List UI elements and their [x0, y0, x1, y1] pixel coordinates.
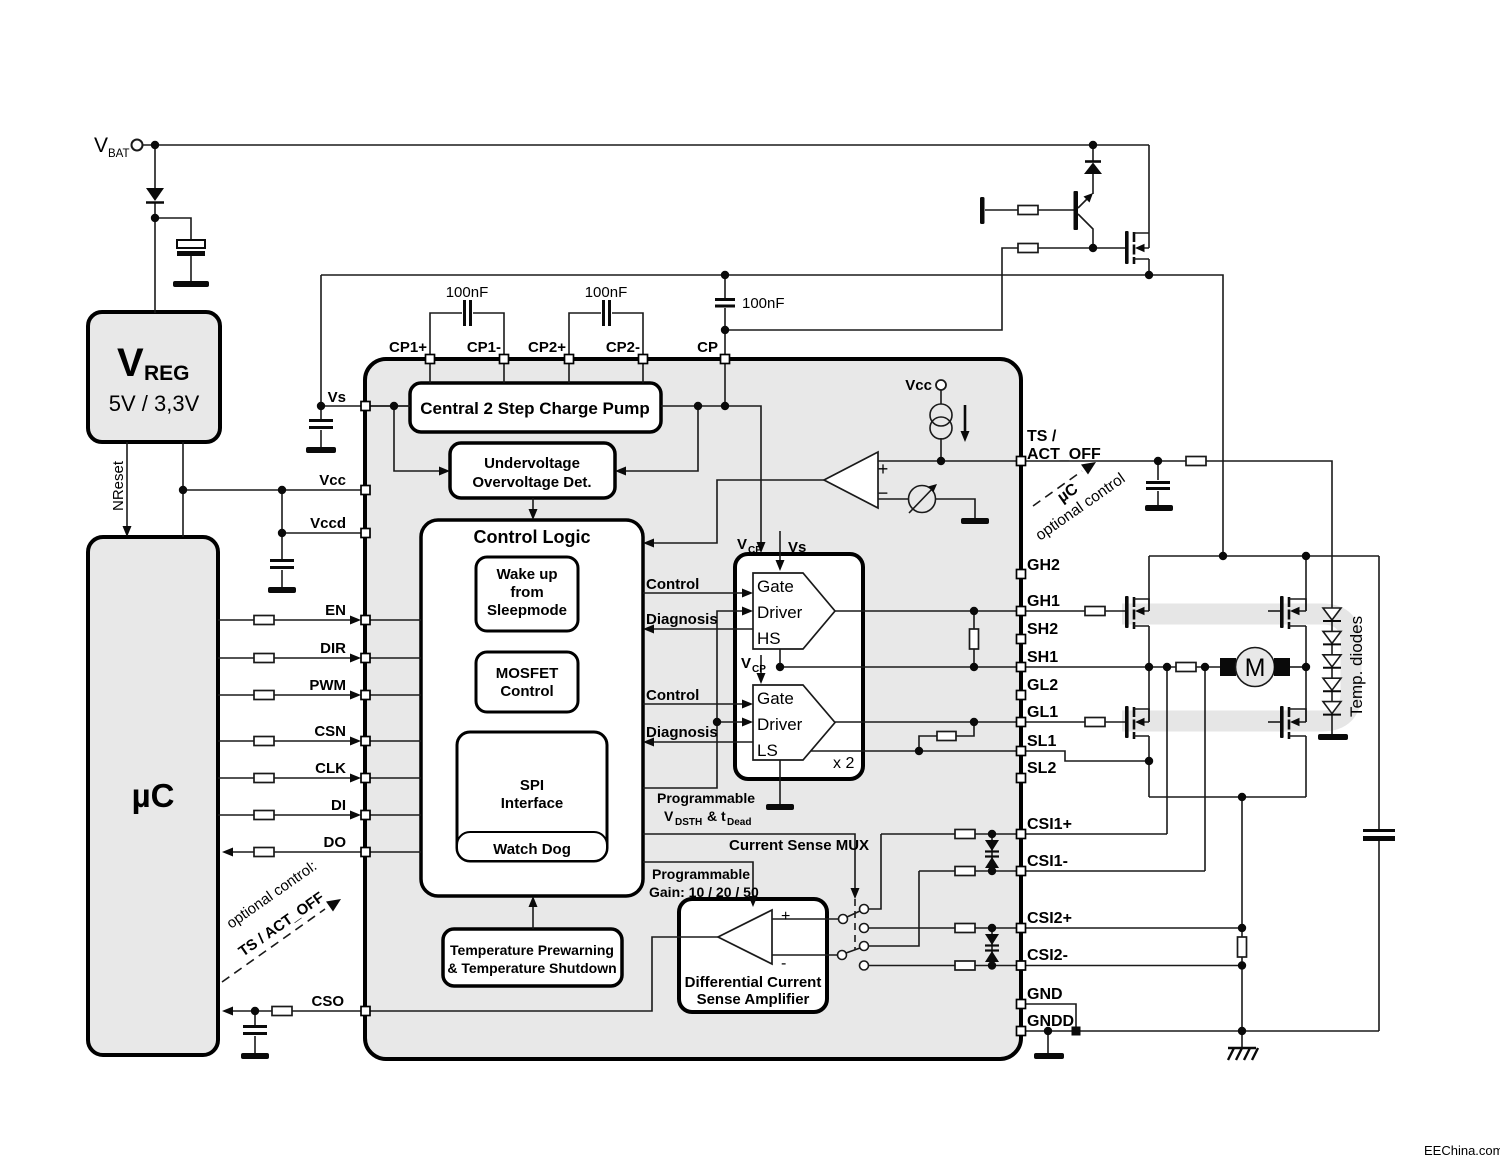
wire CSI2+ internal row — [975, 927, 1016, 929]
wire CP pin into IC — [724, 363, 726, 406]
wire DI to control logic — [369, 814, 421, 816]
wire DO to control logic — [369, 851, 421, 853]
MOSFET right low side — [1280, 706, 1306, 739]
wire SH1 motor node — [1025, 666, 1221, 668]
wire bridge cap riser — [1378, 556, 1380, 1031]
wire CSI2- external row — [1025, 965, 1242, 967]
wake up from sleepmode box — [476, 557, 578, 631]
VBAT terminal circle — [132, 140, 143, 151]
resistor CSI2- — [955, 961, 975, 970]
svg-text:V: V — [664, 808, 674, 824]
svg-text:Vcc: Vcc — [905, 377, 932, 394]
wire bridge shunt to ground — [1241, 797, 1243, 1048]
svg-text:SH2: SH2 — [1027, 621, 1058, 638]
wire CP bypass cap leads — [724, 275, 726, 359]
resistor TS series — [1186, 457, 1206, 466]
svg-text:100nF: 100nF — [742, 295, 785, 312]
svg-text:REG: REG — [144, 362, 190, 385]
diodes clamp CSI2 — [985, 934, 999, 945]
svg-text:Gain: 10 / 20 / 50: Gain: 10 / 20 / 50 — [649, 884, 759, 900]
resistor DO — [254, 848, 274, 857]
ground bar temp diodes — [1318, 734, 1348, 740]
wire CSI1+ tap — [1166, 667, 1168, 834]
wire Vs riser to top supply line — [320, 275, 322, 406]
wire comparator minus input — [878, 498, 908, 500]
capacitor CSO filter — [243, 1027, 267, 1034]
svg-text:5V / 3,3V: 5V / 3,3V — [109, 391, 200, 416]
resistor PWM — [254, 691, 274, 700]
wire Vccd decoupling cap — [281, 533, 283, 587]
wire right HS MOSFET drain — [1305, 556, 1307, 611]
wire VBAT top rail — [143, 144, 1149, 146]
ground bar C1 — [173, 281, 209, 287]
svg-text:BAT: BAT — [108, 148, 130, 160]
wire MUX contact2 to CSI2+ — [868, 927, 955, 929]
wire CSN row — [218, 740, 356, 742]
wire amp minus input — [772, 954, 837, 956]
wire Vccd rail — [282, 532, 361, 534]
arrowhead CSN — [350, 737, 361, 746]
svg-text:NReset: NReset — [110, 460, 127, 511]
temperature prewarning and shutdown box — [443, 929, 622, 986]
wire EN row — [218, 619, 356, 621]
svg-text:HS: HS — [757, 629, 781, 648]
svg-text:Sleepmode: Sleepmode — [487, 602, 567, 619]
svg-text:PWM: PWM — [309, 677, 346, 694]
pin squares right — [1017, 457, 1026, 466]
svg-text:-: - — [781, 955, 786, 972]
wire control to gate driver LS — [643, 703, 746, 705]
differential current sense amplifier box — [679, 899, 827, 1012]
arrowhead comparator to control logic — [643, 539, 654, 548]
wire LS driver output GL1 — [835, 721, 1016, 723]
pin squares left — [361, 402, 370, 411]
comparator thermal sense — [824, 452, 878, 508]
wire right LS MOSFET drain — [1305, 667, 1307, 722]
arrowhead DIR — [350, 654, 361, 663]
wire gate resistor to MOSFET gate — [1038, 247, 1125, 249]
arrowhead VCP into LS driver — [757, 673, 766, 684]
ground bar LS driver — [766, 804, 794, 810]
wire H-bridge top rail — [1149, 555, 1379, 557]
arrowhead DI — [350, 811, 361, 820]
svg-text:CSI2+: CSI2+ — [1027, 910, 1072, 927]
svg-text:+: + — [781, 908, 790, 925]
wire DIR to control logic — [369, 657, 421, 659]
svg-text:CSI2-: CSI2- — [1027, 947, 1068, 964]
arrowhead NReset into uC — [123, 526, 132, 537]
svg-text:Wake up: Wake up — [496, 566, 557, 583]
capacitor TS filter — [1146, 483, 1170, 489]
resistor DI — [254, 811, 274, 820]
junction dots — [151, 141, 159, 149]
svg-text:TS /: TS / — [1027, 428, 1057, 445]
resistor base BJT — [1018, 206, 1038, 215]
MOSFET left low side — [1125, 706, 1149, 739]
wire VBAT down to diode and VREG — [154, 145, 156, 313]
wire HS driver source SH1 — [780, 649, 1016, 667]
voltage regulator VREG box — [88, 312, 220, 442]
svg-text:Vs: Vs — [328, 389, 346, 406]
wire CP1+ pin loop — [430, 313, 504, 359]
svg-text:Diagnosis: Diagnosis — [646, 611, 718, 628]
capacitor C6 100nF at CP — [715, 300, 735, 307]
capacitor C1 polarized — [177, 240, 205, 248]
wire programmable gain control — [643, 862, 753, 898]
arrowhead DO into uC — [222, 848, 233, 857]
earth ground symbol — [1228, 1048, 1258, 1060]
wire MUX select dashed — [854, 899, 856, 950]
wire H-bridge bottom rail — [1149, 796, 1306, 798]
wire CSI1+ internal row — [881, 833, 1016, 835]
wire CSI2- internal row — [975, 965, 1016, 967]
svg-text:CP: CP — [752, 664, 766, 675]
wire top supply line — [321, 275, 1223, 556]
wire left HS MOSFET source — [1148, 626, 1150, 667]
wire CSI2+ external row — [1025, 927, 1242, 929]
wire current sense MUX control — [643, 834, 855, 890]
gate driver x2 box — [735, 554, 863, 779]
wire SL1 row — [1025, 751, 1149, 761]
wire MUX blade plus — [847, 911, 860, 917]
arrowhead UV det to control logic — [529, 509, 538, 520]
wire right LS MOSFET source — [1305, 736, 1307, 797]
wire GL1 SL1 internal resistor leads — [919, 722, 974, 751]
wire Vcc rail — [183, 489, 361, 491]
svg-text:ACT_OFF: ACT_OFF — [1027, 446, 1101, 463]
wire amp output to CSO pin — [369, 937, 718, 1011]
svg-text:100nF: 100nF — [585, 284, 628, 301]
arrowhead VDSTH LS — [742, 718, 753, 727]
wire branch to input capacitor — [155, 218, 191, 281]
arrowhead gain control — [749, 896, 758, 907]
svg-text:V: V — [94, 134, 108, 157]
svg-text:& Temperature Shutdown: & Temperature Shutdown — [447, 960, 616, 976]
ground bar TS filter — [1145, 505, 1173, 511]
wire amp plus input — [772, 918, 838, 920]
svg-text:GL1: GL1 — [1027, 704, 1058, 721]
dashed arrow optional control right — [1033, 471, 1082, 506]
wire CSI2 clamp diodes — [991, 928, 993, 966]
svg-text:Programmable: Programmable — [652, 866, 750, 882]
resistor CSI1- — [955, 867, 975, 876]
wire comparator plus input — [878, 460, 1016, 462]
ground bar reference — [961, 518, 989, 524]
ground bar Vccd — [268, 587, 296, 593]
svg-text:V: V — [117, 341, 144, 385]
resistor EN — [254, 616, 274, 625]
svg-text:Interface: Interface — [501, 795, 564, 812]
wire PWM to control logic — [369, 694, 421, 696]
wire right LS gate stub — [1268, 721, 1280, 723]
resistor CSO — [272, 1007, 292, 1016]
svg-text:GL2: GL2 — [1027, 677, 1058, 694]
wire CLK to control logic — [369, 777, 421, 779]
arrowhead CP to UV det — [615, 467, 626, 476]
wire Vcc current source — [940, 390, 942, 461]
wire HS driver output GH1 — [835, 610, 1016, 612]
MUX wiper contacts — [839, 915, 848, 924]
resistor bridge shunt CSI2 — [1238, 937, 1247, 957]
arrowhead MUX control — [851, 888, 860, 899]
svg-text:µC: µC — [132, 777, 175, 814]
resistor GH1 gate — [1085, 607, 1105, 616]
control logic box — [421, 520, 643, 896]
svg-text:Vccd: Vccd — [310, 515, 346, 532]
svg-text:+: + — [878, 459, 889, 479]
svg-text:Driver: Driver — [757, 715, 803, 734]
svg-text:M: M — [1245, 654, 1266, 682]
svg-text:DI: DI — [331, 797, 346, 814]
svg-text:CSN: CSN — [314, 723, 346, 740]
wire EN to control logic — [369, 619, 421, 621]
svg-text:Sense Amplifier: Sense Amplifier — [697, 991, 810, 1008]
wire TS ACT_OFF to temp diodes — [1025, 461, 1332, 605]
wire CP1 pins into charge pump — [430, 363, 504, 383]
svg-text:GND: GND — [1027, 986, 1063, 1003]
resistor CSI2+ — [955, 924, 975, 933]
wire CP branch to UV det — [621, 406, 698, 471]
svg-text:SH1: SH1 — [1027, 649, 1058, 666]
resistor internal GL1-SL1 — [937, 732, 956, 741]
wire Vcc to Vccd — [281, 490, 283, 533]
wire CSN to control logic — [369, 740, 421, 742]
wire left HS MOSFET drain — [1148, 556, 1150, 611]
arrowhead EN — [350, 616, 361, 625]
svg-text:LS: LS — [757, 741, 778, 760]
watch dog box — [457, 832, 607, 861]
ground bar GNDD — [1034, 1053, 1064, 1059]
resistor internal GH1-SH1 — [970, 629, 979, 649]
external MOSFET M1 — [1125, 231, 1129, 264]
gate driver LS pentagon — [753, 685, 835, 760]
svg-text:Current Sense MUX: Current Sense MUX — [729, 837, 869, 854]
svg-text:Watch Dog: Watch Dog — [493, 841, 571, 858]
current source Vcc — [936, 380, 946, 390]
wire GH1 gate lead — [1025, 610, 1125, 612]
wire left LS MOSFET drain — [1148, 667, 1150, 722]
wire CSI1 clamp diodes — [991, 834, 993, 871]
svg-text:CSO: CSO — [311, 993, 344, 1010]
ground bar CSO — [241, 1053, 269, 1059]
resistor GL1 gate — [1085, 718, 1105, 727]
wire CLK row — [218, 777, 356, 779]
svg-text:CSI1-: CSI1- — [1027, 853, 1068, 870]
arrowhead VDSTH HS — [742, 607, 753, 616]
wire DI row — [218, 814, 356, 816]
wire external MOSFET source — [1148, 259, 1150, 275]
microcontroller uC box — [88, 537, 218, 1055]
resistor gate external MOSFET — [1018, 244, 1038, 253]
resistor current shunt SH — [1176, 663, 1196, 672]
amplifier triangle — [718, 910, 772, 964]
terminal bar external — [980, 197, 985, 224]
wire CSI1- internal row — [919, 870, 1016, 872]
wire TS filter cap — [1157, 461, 1159, 505]
capacitor 100nF CP1 — [465, 300, 471, 326]
wire right HS MOSFET source — [1305, 626, 1307, 667]
svg-text:Gate: Gate — [757, 689, 794, 708]
svg-text:Vs: Vs — [788, 539, 806, 556]
charge pump box — [410, 383, 661, 432]
capacitor C2 Vccd — [270, 561, 294, 568]
svg-text:100nF: 100nF — [446, 284, 489, 301]
svg-text:Differential Current: Differential Current — [685, 974, 822, 991]
arrowhead CLK — [350, 774, 361, 783]
MOSFET right high side — [1280, 596, 1306, 629]
svg-text:CP: CP — [748, 545, 762, 556]
arrowhead VCP into driver box — [757, 542, 766, 553]
pin squares top — [426, 355, 435, 364]
diode D1 series — [146, 188, 164, 201]
arrowhead CSO into uC — [222, 1007, 233, 1016]
gate driver HS pentagon — [753, 573, 835, 649]
arrowhead control LS — [742, 700, 753, 709]
svg-text:Driver: Driver — [757, 603, 803, 622]
wire CSI1+ external row — [1025, 833, 1167, 835]
arrowhead PWM — [350, 691, 361, 700]
wire Vs decoupling cap — [320, 406, 322, 447]
wire CP2 pins into charge pump — [569, 363, 643, 383]
wire PWM row — [218, 694, 356, 696]
wire charge pump output — [661, 406, 761, 545]
svg-text:EN: EN — [325, 602, 346, 619]
wire GL1 gate lead — [1025, 721, 1125, 723]
arrowhead Vs to UV det — [439, 467, 450, 476]
svg-text:EEChina.com: EEChina.com — [1424, 1143, 1500, 1158]
resistor CSI1+ — [955, 830, 975, 839]
wire Vs pin internal with branch to UV det — [369, 406, 444, 471]
svg-text:CLK: CLK — [315, 760, 346, 777]
wire CSO row external — [228, 1010, 361, 1012]
svg-text:from: from — [510, 584, 543, 601]
resistor CLK — [254, 774, 274, 783]
wire right HS gate stub — [1268, 610, 1280, 612]
svg-text:CP1-: CP1- — [467, 339, 501, 356]
svg-text:Control: Control — [646, 687, 699, 704]
svg-text:Control: Control — [646, 576, 699, 593]
svg-text:SL2: SL2 — [1027, 760, 1056, 777]
diode D2 zener to VBAT — [1085, 160, 1101, 163]
svg-text:Vcc: Vcc — [319, 472, 346, 489]
wire LS driver ground — [779, 760, 781, 804]
temp diodes chain — [1323, 605, 1341, 734]
svg-text:& t: & t — [707, 808, 726, 824]
wire DIR row — [218, 657, 356, 659]
wire NReset VREG to uC — [126, 442, 128, 530]
transistor Q1 — [1074, 191, 1079, 230]
wire Vs stub arrow into gate driver — [779, 531, 781, 562]
capacitor C3 Vs — [309, 421, 333, 428]
wire comparator output to control logic — [650, 480, 824, 543]
arrowhead Vs into HS driver — [776, 560, 785, 571]
wire CP to external gate circuit — [725, 248, 1018, 330]
svg-text:CP2-: CP2- — [606, 339, 640, 356]
wire diagnosis from gate driver LS — [650, 741, 753, 743]
svg-text:CP2+: CP2+ — [528, 339, 566, 356]
wire GND external — [1025, 1004, 1076, 1031]
svg-text:Temperature Prewarning: Temperature Prewarning — [450, 942, 614, 958]
wire MUX contact3 to CSI1- — [868, 871, 919, 946]
svg-text:Overvoltage Det.: Overvoltage Det. — [472, 474, 591, 491]
svg-text:Diagnosis: Diagnosis — [646, 724, 718, 741]
wire temp shutdown to control logic — [532, 903, 534, 929]
wire diagnosis from gate driver HS — [650, 628, 753, 630]
svg-text:x 2: x 2 — [833, 755, 854, 772]
svg-text:Control Logic: Control Logic — [474, 527, 591, 547]
svg-text:Control: Control — [500, 683, 553, 700]
main IC block body — [365, 359, 1021, 1059]
svg-text:CP1+: CP1+ — [389, 339, 427, 356]
wire UV det to control logic — [532, 498, 534, 513]
SPI interface box — [457, 732, 607, 861]
MOSFET left high side — [1125, 596, 1149, 629]
wire GNDD external row — [1025, 1030, 1379, 1032]
thermal coupling highlight band — [1122, 614, 1351, 721]
motor M — [1220, 658, 1236, 676]
wire MUX blade minus — [846, 948, 860, 953]
svg-text:V: V — [737, 536, 747, 553]
svg-text:DSTH: DSTH — [675, 817, 702, 828]
svg-text:GH1: GH1 — [1027, 593, 1060, 610]
MOSFET control box — [476, 652, 578, 712]
svg-text:MOSFET: MOSFET — [496, 665, 559, 682]
wire VREG output down — [182, 442, 184, 537]
wire VCP stub arrow into LS driver — [760, 655, 762, 675]
svg-text:DIR: DIR — [320, 640, 346, 657]
svg-text:Central 2 Step Charge Pump: Central 2 Step Charge Pump — [420, 399, 650, 418]
svg-text:Gate: Gate — [757, 577, 794, 596]
wire Vs pin to charge pump — [321, 405, 410, 407]
resistor CSN — [254, 737, 274, 746]
wire control to gate driver HS — [643, 592, 746, 594]
MUX input contacts — [860, 905, 869, 914]
wire motor to right bridge node — [1290, 666, 1306, 668]
wire LS driver SL1 — [811, 750, 1016, 752]
arrowhead diagnosis HS — [643, 625, 654, 634]
svg-text:CSI1+: CSI1+ — [1027, 816, 1072, 833]
wire GNDD local ground — [1047, 1031, 1049, 1053]
resistor DIR — [254, 654, 274, 663]
wire GH1 SH1 internal resistor leads — [973, 611, 975, 667]
wire programmable VDSTH tDead — [643, 611, 746, 788]
svg-text:Programmable: Programmable — [657, 790, 755, 806]
wire base resistor leads — [985, 209, 1074, 211]
svg-text:Temp. diodes: Temp. diodes — [1347, 616, 1366, 717]
svg-text:Dead: Dead — [727, 817, 751, 828]
capacitor 100nF CP2 — [604, 300, 610, 326]
wire left LS MOSFET source — [1148, 736, 1150, 797]
wire zener to VBAT — [1092, 145, 1094, 194]
ground bar Vs — [306, 447, 336, 453]
arrowhead diagnosis LS — [643, 738, 654, 747]
svg-text:GH2: GH2 — [1027, 557, 1060, 574]
undervoltage overvoltage detection box — [450, 443, 615, 498]
diodes clamp CSI1 — [985, 840, 999, 851]
wire CSI1- tap — [1204, 667, 1206, 871]
svg-text:SPI: SPI — [520, 777, 544, 794]
capacitor bulk right — [1363, 829, 1395, 832]
wire CSI1- external row — [1025, 870, 1205, 872]
svg-text:DO: DO — [324, 834, 347, 851]
wire CSO filter cap — [254, 1011, 256, 1053]
svg-text:GNDD: GNDD — [1027, 1013, 1074, 1030]
svg-text:Undervoltage: Undervoltage — [484, 455, 580, 472]
wire external MOSFET drain — [1148, 145, 1150, 248]
svg-text:V: V — [741, 655, 751, 672]
wire CP2+ pin loop — [569, 313, 643, 359]
dashed arrow optional control left — [222, 909, 325, 982]
